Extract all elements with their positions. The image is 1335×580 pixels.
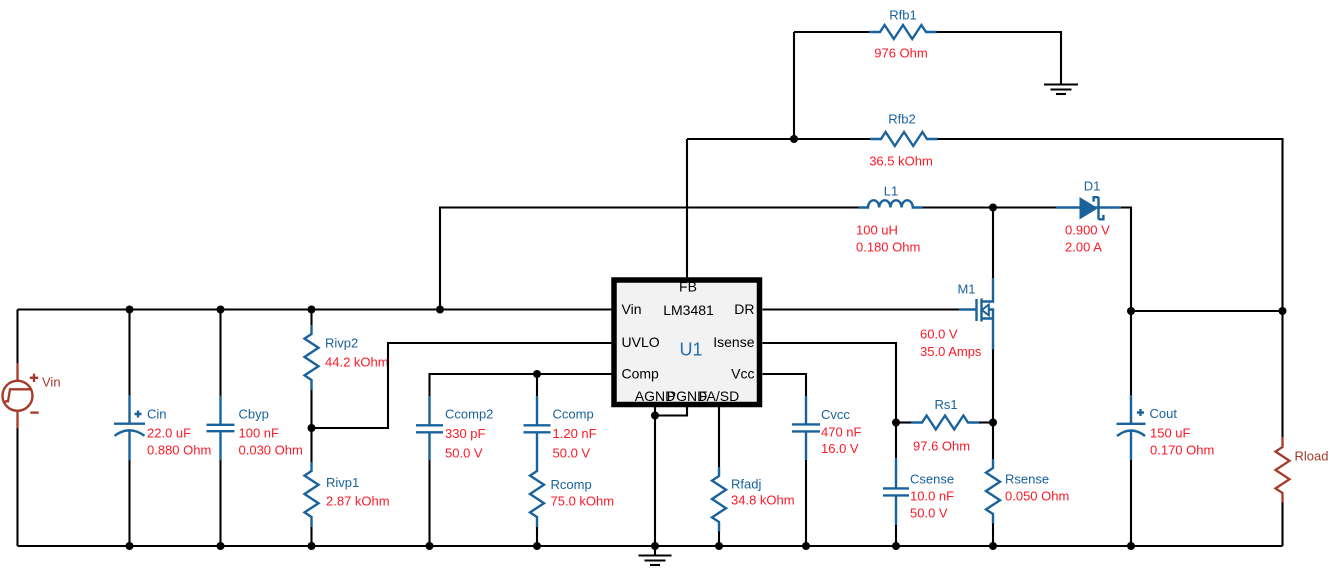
junction Comp/Ccomp bbox=[533, 370, 541, 378]
svg-text:Rs1: Rs1 bbox=[934, 397, 957, 412]
svg-text:16.0 V: 16.0 V bbox=[821, 441, 859, 456]
junction Rs1/Rsense bbox=[989, 419, 997, 427]
junction bottom rail Cbyp bbox=[217, 542, 225, 550]
svg-text:Rsense: Rsense bbox=[1005, 472, 1049, 487]
svg-text:Ccomp2: Ccomp2 bbox=[445, 407, 493, 422]
svg-text:Cin: Cin bbox=[147, 407, 167, 422]
voltage source Vin bbox=[3, 363, 39, 428]
wire bottom rail bbox=[18, 545, 1283, 547]
wire PGND bbox=[655, 407, 687, 416]
junction bottom rail Cout bbox=[1127, 542, 1135, 550]
svg-text:1.20 nF: 1.20 nF bbox=[553, 426, 597, 441]
svg-text:0.900 V: 0.900 V bbox=[1065, 223, 1110, 238]
wire Rfb2 left bbox=[687, 138, 871, 140]
svg-text:35.0 Amps: 35.0 Amps bbox=[920, 344, 982, 359]
wire M1 source bbox=[992, 350, 994, 423]
wire D1 cathode to output bbox=[1121, 208, 1131, 312]
junction output/Cout bbox=[1127, 307, 1135, 315]
junction switch node bbox=[989, 204, 997, 212]
svg-text:D1: D1 bbox=[1084, 179, 1101, 194]
capacitor Ccomp bbox=[524, 374, 551, 462]
svg-text:Cbyp: Cbyp bbox=[239, 407, 269, 422]
svg-text:FB: FB bbox=[679, 279, 697, 295]
svg-text:Vin: Vin bbox=[42, 375, 61, 390]
resistor Rfb2 bbox=[870, 132, 938, 146]
svg-text:44.2 kOhm: 44.2 kOhm bbox=[325, 355, 389, 370]
svg-text:0.050 Ohm: 0.050 Ohm bbox=[1005, 489, 1069, 504]
svg-text:22.0 uF: 22.0 uF bbox=[147, 426, 191, 441]
capacitor Cbyp bbox=[207, 310, 235, 547]
svg-text:Rfb1: Rfb1 bbox=[889, 8, 916, 23]
junction bottom rail Rcomp bbox=[533, 542, 541, 550]
wire DR gate bbox=[763, 308, 960, 310]
transistor M1 bbox=[959, 278, 993, 350]
svg-text:10.0 nF: 10.0 nF bbox=[910, 489, 954, 504]
svg-text:97.6 Ohm: 97.6 Ohm bbox=[913, 439, 970, 454]
wire output rail bbox=[1131, 310, 1283, 312]
svg-text:0.880 Ohm: 0.880 Ohm bbox=[147, 443, 211, 458]
svg-text:Rload: Rload bbox=[1295, 449, 1329, 464]
svg-text:UVLO: UVLO bbox=[622, 334, 660, 350]
wire Rfb1 branch bbox=[794, 32, 870, 139]
svg-text:2.87 kOhm: 2.87 kOhm bbox=[326, 494, 390, 509]
junction Rfb1/Rfb2 bbox=[790, 135, 798, 143]
svg-text:0.030 Ohm: 0.030 Ohm bbox=[239, 443, 303, 458]
svg-text:L1: L1 bbox=[884, 184, 898, 199]
svg-text:Rfb2: Rfb2 bbox=[888, 112, 915, 127]
wire Vin top rail bbox=[18, 308, 612, 310]
svg-text:2.00 A: 2.00 A bbox=[1065, 240, 1102, 255]
capacitor Csense bbox=[883, 423, 909, 547]
junction bottom rail Cin bbox=[126, 542, 134, 550]
svg-text:330 pF: 330 pF bbox=[445, 426, 486, 441]
svg-text:Rivp1: Rivp1 bbox=[326, 475, 359, 490]
svg-text:Ccomp: Ccomp bbox=[553, 407, 594, 422]
svg-text:DR: DR bbox=[734, 301, 754, 317]
svg-text:976 Ohm: 976 Ohm bbox=[874, 46, 927, 61]
junction Rivp divider bbox=[308, 424, 316, 432]
wire Rfb1 to ground bbox=[937, 32, 1062, 85]
IC U1 LM3481 bbox=[614, 280, 760, 405]
wire switch node bbox=[923, 206, 1057, 208]
svg-text:LM3481: LM3481 bbox=[663, 302, 714, 318]
svg-text:50.0 V: 50.0 V bbox=[445, 446, 483, 461]
capacitor Cin bbox=[114, 310, 145, 547]
svg-text:Vin: Vin bbox=[622, 301, 642, 317]
svg-text:Cvcc: Cvcc bbox=[821, 407, 850, 422]
svg-text:M1: M1 bbox=[957, 282, 975, 297]
resistor Rcomp bbox=[530, 462, 544, 546]
wire FA/SD bbox=[718, 407, 720, 468]
resistor Rfadj bbox=[712, 467, 726, 546]
wire Rfb2 right / right edge bbox=[938, 139, 1283, 437]
junction top rail Cin bbox=[126, 306, 134, 314]
resistor Rfb1 bbox=[869, 25, 937, 39]
svg-text:Rivp2: Rivp2 bbox=[325, 336, 358, 351]
wire Vcc net bbox=[763, 374, 807, 397]
resistor Rs1 bbox=[896, 416, 993, 430]
svg-text:FA/SD: FA/SD bbox=[699, 388, 739, 404]
wire FB net bbox=[686, 139, 688, 278]
svg-text:36.5 kOhm: 36.5 kOhm bbox=[869, 154, 933, 169]
resistor Rsense bbox=[986, 423, 1000, 547]
junction bottom rail Csense bbox=[892, 542, 900, 550]
junction top rail L1 bbox=[436, 306, 444, 314]
inductor L1 bbox=[859, 200, 923, 207]
junction bottom rail Rfadj bbox=[715, 542, 723, 550]
wire UVLO net bbox=[312, 343, 612, 428]
svg-text:Comp: Comp bbox=[622, 366, 660, 382]
svg-text:100 uH: 100 uH bbox=[856, 223, 898, 238]
svg-text:60.0 V: 60.0 V bbox=[920, 327, 958, 342]
junction bottom rail AGND bbox=[651, 542, 659, 550]
svg-text:Csense: Csense bbox=[910, 472, 954, 487]
wire Isense net bbox=[763, 343, 897, 423]
ground G1 bbox=[1044, 85, 1078, 95]
svg-text:Rfadj: Rfadj bbox=[731, 477, 761, 492]
wire L1 branch bbox=[440, 208, 859, 310]
junction bottom rail Rivp1 bbox=[308, 542, 316, 550]
wire Rload bottom bbox=[1281, 503, 1283, 547]
capacitor Cout bbox=[1117, 311, 1146, 546]
svg-text:100 nF: 100 nF bbox=[239, 426, 280, 441]
wire AGND bbox=[654, 407, 656, 546]
svg-text:Cout: Cout bbox=[1150, 406, 1178, 421]
junction bottom rail Ccomp2 bbox=[426, 542, 434, 550]
svg-text:U1: U1 bbox=[679, 340, 702, 360]
resistor Rload bbox=[1276, 437, 1290, 503]
wire Comp net bbox=[430, 374, 612, 397]
svg-text:150 uF: 150 uF bbox=[1150, 426, 1191, 441]
junction bottom rail Cvcc bbox=[802, 542, 810, 550]
svg-text:470 nF: 470 nF bbox=[821, 425, 862, 440]
junction bottom rail Rsense bbox=[989, 542, 997, 550]
resistor Rivp2 bbox=[305, 310, 319, 463]
wire left edge bottom bbox=[16, 428, 18, 546]
capacitor Ccomp2 bbox=[416, 396, 443, 546]
wire left edge top bbox=[16, 310, 18, 364]
diode D1 bbox=[1056, 197, 1121, 220]
junction Isense/Rs1 bbox=[892, 419, 900, 427]
svg-text:Vcc: Vcc bbox=[731, 366, 754, 382]
svg-text:0.180 Ohm: 0.180 Ohm bbox=[856, 240, 920, 255]
ground G2 bbox=[639, 546, 672, 565]
svg-text:34.8 kOhm: 34.8 kOhm bbox=[731, 493, 795, 508]
junction top rail Cbyp bbox=[217, 306, 225, 314]
svg-text:75.0 kOhm: 75.0 kOhm bbox=[551, 494, 615, 509]
wire M1 drain bbox=[992, 208, 994, 279]
junction output/Rload bbox=[1279, 307, 1287, 315]
junction AGND/PGND bbox=[651, 412, 659, 420]
svg-text:Rcomp: Rcomp bbox=[551, 477, 592, 492]
capacitor Cvcc bbox=[792, 396, 820, 546]
svg-text:50.0 V: 50.0 V bbox=[910, 506, 948, 521]
resistor Rivp1 bbox=[305, 462, 319, 546]
svg-text:0.170 Ohm: 0.170 Ohm bbox=[1150, 443, 1214, 458]
svg-text:50.0 V: 50.0 V bbox=[553, 446, 591, 461]
junction top rail Rivp2 bbox=[308, 306, 316, 314]
svg-text:Isense: Isense bbox=[713, 334, 754, 350]
